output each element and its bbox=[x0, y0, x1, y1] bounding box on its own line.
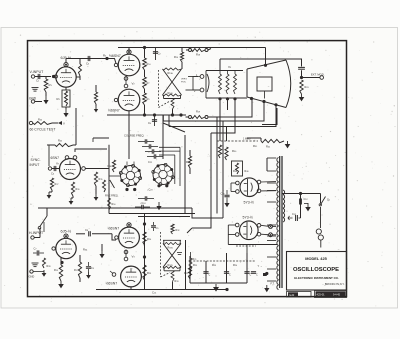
svg-text:60 CYCLE TEST: 60 CYCLE TEST bbox=[30, 128, 57, 132]
svg-text:½6SN7: ½6SN7 bbox=[106, 282, 118, 286]
svg-text:½6SN7: ½6SN7 bbox=[108, 227, 120, 231]
svg-text:FINE FREQ.: FINE FREQ. bbox=[105, 195, 119, 198]
svg-text:6J5-½: 6J5-½ bbox=[61, 230, 72, 234]
svg-text:5Y3-½: 5Y3-½ bbox=[243, 216, 253, 220]
svg-text:SYNC.: SYNC. bbox=[31, 158, 41, 162]
svg-text:GND: GND bbox=[29, 275, 35, 279]
svg-text:½6SN7: ½6SN7 bbox=[108, 109, 120, 113]
svg-text:C: C bbox=[250, 274, 252, 277]
svg-text:EXT. MOD.: EXT. MOD. bbox=[311, 73, 325, 77]
svg-text:H-INPUT: H-INPUT bbox=[29, 231, 44, 235]
svg-text:½6SN7: ½6SN7 bbox=[109, 54, 121, 58]
svg-text:425-01: 425-01 bbox=[317, 293, 326, 297]
svg-text:V-INPUT: V-INPUT bbox=[30, 70, 45, 74]
svg-text:C: C bbox=[209, 274, 211, 277]
svg-text:C: C bbox=[229, 274, 231, 277]
svg-text:C: C bbox=[256, 274, 258, 277]
svg-text:OSCILLOSCOPE: OSCILLOSCOPE bbox=[293, 267, 339, 273]
svg-text:5Y3-½: 5Y3-½ bbox=[244, 201, 254, 205]
svg-text:MODEL 425: MODEL 425 bbox=[305, 256, 327, 261]
svg-text:POS.: POS. bbox=[181, 82, 187, 84]
svg-text:Y →: Y → bbox=[258, 264, 263, 268]
svg-text:V: V bbox=[63, 122, 65, 126]
svg-text:VERT.: VERT. bbox=[181, 79, 188, 81]
svg-text:6SN7: 6SN7 bbox=[51, 156, 60, 160]
svg-text:№42: №42 bbox=[289, 294, 295, 297]
svg-text:INPUT: INPUT bbox=[30, 163, 40, 167]
svg-text:COARSE FREQ.: COARSE FREQ. bbox=[124, 134, 145, 138]
svg-text:ELECTRONIC INSTRUMENT CO.: ELECTRONIC INSTRUMENT CO. bbox=[294, 276, 339, 280]
svg-text:9-4-45: 9-4-45 bbox=[333, 294, 341, 297]
